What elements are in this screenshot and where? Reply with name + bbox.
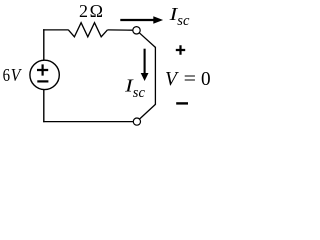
svg-text:sc: sc (177, 13, 190, 29)
polarity minus label (176, 102, 188, 104)
svg-text:Ω: Ω (90, 1, 103, 21)
current arrow Isc (top, rightward) (120, 19, 154, 21)
voltage source plus sign (37, 64, 48, 75)
wire bottom-left vertical (source bottom to corner) (43, 90, 45, 122)
svg-text:6: 6 (3, 65, 10, 85)
wire top-left vertical (source top to corner) (43, 29, 45, 60)
svg-text:V: V (11, 65, 22, 85)
node a: top open terminal (133, 27, 140, 34)
node b: bottom open terminal (133, 118, 140, 125)
wire bottom horizontal (43, 121, 133, 123)
resistor R 2ohm zigzag (68, 23, 107, 37)
wire resistor to top terminal (107, 29, 132, 31)
svg-text:0: 0 (201, 68, 211, 90)
svg-text:2: 2 (79, 1, 88, 21)
voltage source 6V circle (30, 60, 59, 89)
wire top horizontal (corner to resistor) (43, 29, 69, 31)
svg-text:sc: sc (133, 85, 146, 101)
svg-text:V: V (165, 68, 180, 90)
current arrow Isc (middle, downward) (144, 49, 146, 74)
polarity plus label (176, 45, 185, 54)
voltage source minus sign (37, 80, 48, 82)
wire right vertical (short circuit) (154, 47, 156, 105)
wire top diagonal (terminal to right branch) (139, 33, 155, 48)
svg-text:=: = (184, 68, 196, 90)
wire bottom diagonal (right branch to bottom terminal) (140, 104, 156, 119)
